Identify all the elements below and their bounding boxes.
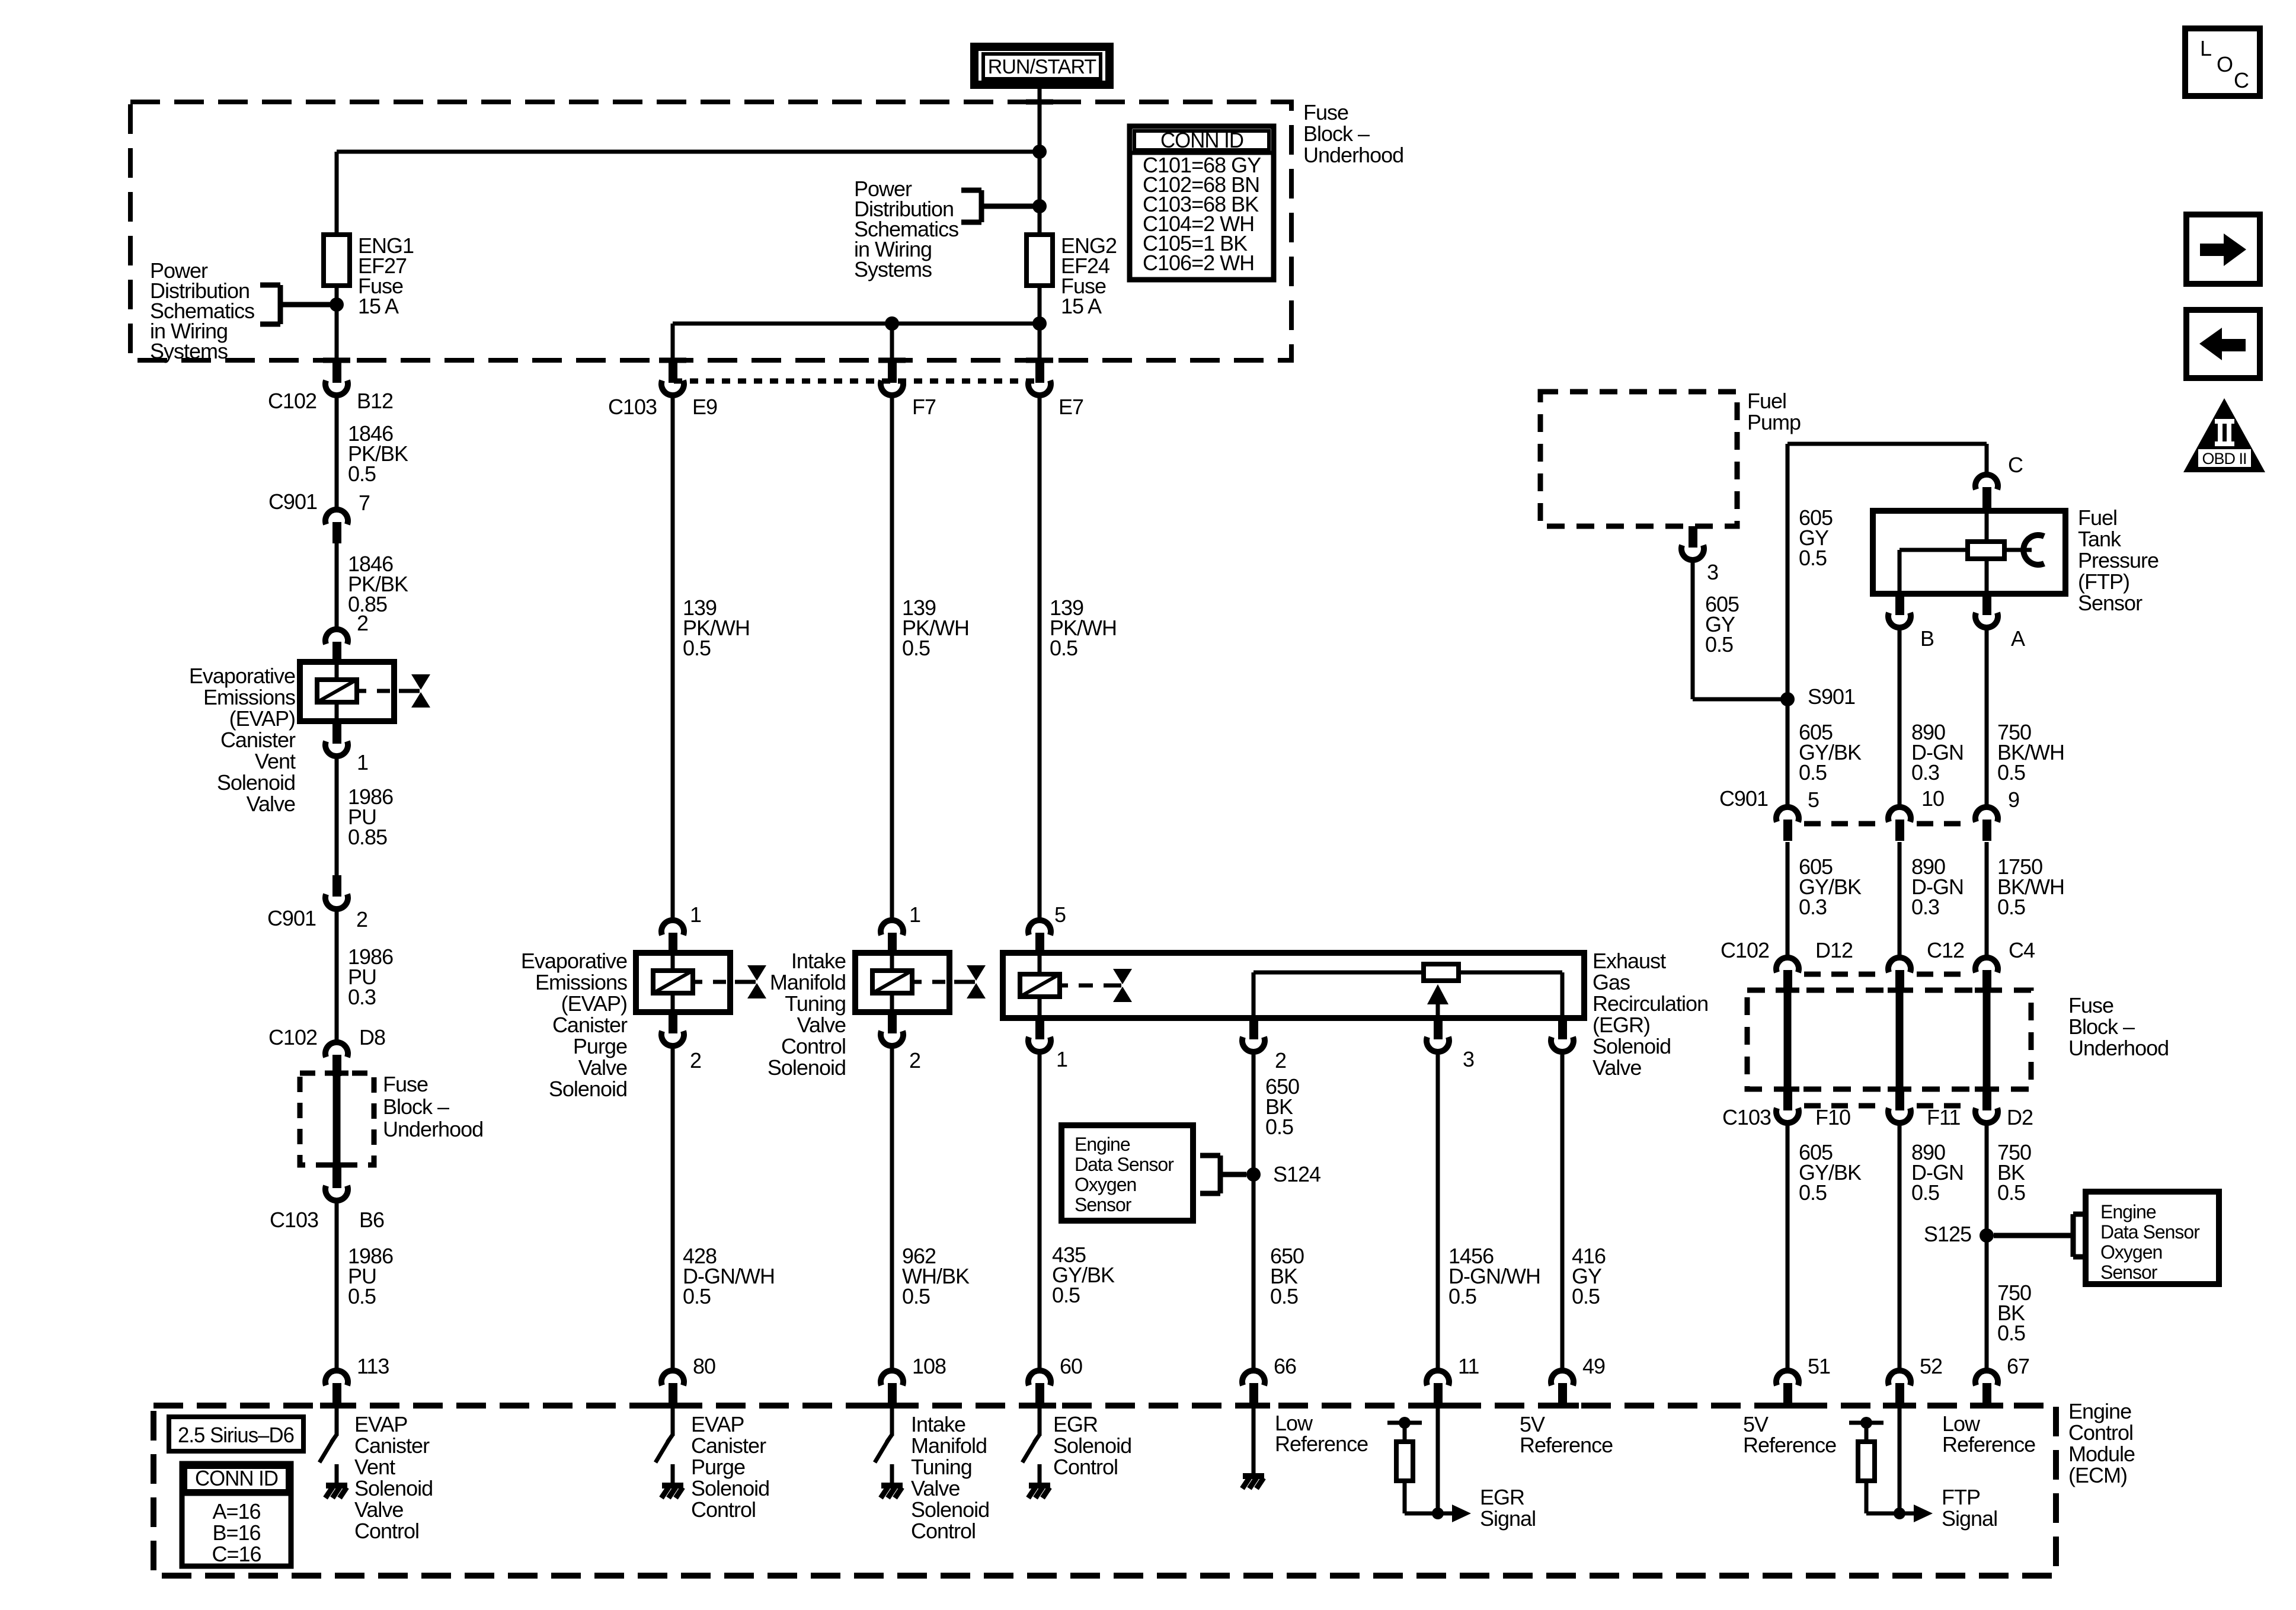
svg-text:Purge: Purge bbox=[573, 1034, 627, 1058]
svg-text:D2: D2 bbox=[2007, 1105, 2033, 1129]
wire EGR-3 to ECM 11 bbox=[1436, 1055, 1440, 1371]
svg-text:L: L bbox=[2200, 36, 2211, 60]
svg-text:5: 5 bbox=[1054, 902, 1066, 927]
svg-text:49: 49 bbox=[1582, 1354, 1605, 1378]
label 1 (vent pin1) bbox=[357, 750, 368, 774]
svg-text:Engine: Engine bbox=[1075, 1134, 1130, 1155]
connector ECM pin 66 bbox=[1242, 1371, 1265, 1403]
svg-text:Solenoid: Solenoid bbox=[911, 1497, 989, 1522]
label C102 (D8) bbox=[268, 1025, 317, 1049]
svg-text:Valve: Valve bbox=[578, 1055, 627, 1080]
svg-text:Data Sensor: Data Sensor bbox=[2100, 1221, 2200, 1243]
wire purge-2 to ECM 80 bbox=[671, 1049, 675, 1371]
label evaporative emissions vent bbox=[189, 664, 296, 816]
label C103 (E9) bbox=[608, 395, 657, 419]
svg-text:Engine: Engine bbox=[2068, 1399, 2131, 1423]
label wire 1750 BK/WH 0.5 bbox=[1997, 854, 2064, 919]
svg-text:Sensor: Sensor bbox=[1075, 1194, 1132, 1215]
wire EGR-1 to ECM 60 bbox=[1038, 1055, 1042, 1371]
label ENG1 EF27 Fuse 15 A bbox=[358, 233, 414, 318]
svg-text:C103: C103 bbox=[270, 1208, 318, 1232]
connector C103 F10 bbox=[1776, 1089, 1799, 1123]
connector intake solenoid pin 1 bbox=[881, 920, 903, 954]
svg-text:0.5: 0.5 bbox=[902, 636, 930, 660]
svg-text:C=16: C=16 bbox=[212, 1542, 261, 1566]
svg-text:15 A: 15 A bbox=[1061, 294, 1102, 318]
wire F10 to ECM 51 bbox=[1786, 1125, 1790, 1371]
svg-text:Canister: Canister bbox=[552, 1013, 628, 1037]
label 5 (C901) bbox=[1808, 788, 1819, 812]
svg-text:Valve: Valve bbox=[797, 1013, 846, 1037]
connector C901 pin 9 bbox=[1975, 807, 1998, 841]
connector C102 B12 bbox=[325, 361, 348, 395]
svg-text:Solenoid: Solenoid bbox=[354, 1476, 433, 1500]
svg-text:Intake: Intake bbox=[911, 1412, 965, 1436]
label wire 750 BK 0.5 (lower) bbox=[1997, 1281, 2031, 1345]
connector C103 F7 bbox=[881, 361, 903, 395]
label wire 1846 PK/BK 0.85 bbox=[348, 552, 408, 616]
label wire 1456 D-GN/WH 0.5 bbox=[1448, 1244, 1540, 1308]
svg-text:2: 2 bbox=[357, 611, 368, 635]
svg-text:Fuse: Fuse bbox=[1303, 100, 1348, 124]
svg-text:15 A: 15 A bbox=[358, 294, 399, 318]
label C12 bbox=[1927, 938, 1964, 962]
label 3 (EGR) bbox=[1463, 1047, 1474, 1071]
label pin 49 bbox=[1582, 1354, 1605, 1378]
label wire 139 PK/WH 0.5 (EGR) bbox=[1050, 596, 1117, 660]
svg-text:F7: F7 bbox=[912, 395, 936, 419]
svg-text:C: C bbox=[2234, 68, 2249, 92]
label wire 435 GY/BK 0.5 bbox=[1052, 1243, 1115, 1307]
ticks wires crossing fuse box bottom bbox=[323, 358, 1053, 363]
svg-text:80: 80 bbox=[693, 1354, 715, 1378]
svg-text:E9: E9 bbox=[692, 395, 717, 419]
label F11 bbox=[1927, 1105, 1960, 1129]
svg-text:108: 108 bbox=[912, 1354, 946, 1378]
fuse ENG2 EF24 bbox=[1027, 235, 1053, 286]
arrow icon (right) bbox=[2186, 215, 2260, 284]
svg-text:Solenoid: Solenoid bbox=[549, 1077, 627, 1101]
svg-text:0.5: 0.5 bbox=[1911, 1180, 1939, 1205]
svg-text:Control: Control bbox=[1053, 1455, 1118, 1479]
label pin 113 bbox=[357, 1354, 389, 1378]
CONN ID table (top) bbox=[1130, 126, 1274, 280]
node S901 splice dot bbox=[1780, 692, 1795, 706]
svg-text:Evaporative: Evaporative bbox=[189, 664, 295, 688]
svg-text:Data Sensor: Data Sensor bbox=[1075, 1154, 1174, 1175]
svg-text:Reference: Reference bbox=[1743, 1433, 1836, 1457]
label wire 1846 PK/BK 0.5 bbox=[348, 421, 408, 486]
wire C901-5 to C102-D12 bbox=[1786, 842, 1790, 958]
svg-text:2: 2 bbox=[909, 1048, 920, 1073]
svg-text:113: 113 bbox=[357, 1354, 389, 1378]
label 1 (purge) bbox=[690, 902, 701, 927]
svg-text:CONN ID: CONN ID bbox=[1160, 128, 1243, 152]
wire RUN/START down to ENG2 fuse bbox=[1038, 89, 1042, 235]
label D2 bbox=[2007, 1105, 2033, 1129]
svg-text:0.5: 0.5 bbox=[1270, 1284, 1298, 1308]
connector EGR pin 4 (unlabeled) bbox=[1551, 1018, 1574, 1052]
label wire 962 WH/BK 0.5 bbox=[902, 1244, 970, 1308]
label C901 (2) bbox=[267, 906, 316, 930]
svg-text:Valve: Valve bbox=[247, 792, 295, 816]
svg-text:Control: Control bbox=[2068, 1420, 2133, 1445]
label 9 (C901) bbox=[2008, 788, 2019, 812]
label wire 428 D-GN/WH 0.5 bbox=[683, 1244, 775, 1308]
label 2 (vent pin2) bbox=[357, 611, 368, 635]
label S124 bbox=[1273, 1162, 1320, 1186]
label wire 1986 PU 0.5 bbox=[348, 1244, 393, 1308]
svg-text:5: 5 bbox=[1808, 788, 1819, 812]
svg-text:(EVAP): (EVAP) bbox=[229, 706, 295, 731]
label B6 bbox=[359, 1208, 384, 1232]
node dot power distribution tap (ENG2) bbox=[1032, 199, 1047, 213]
label 1 (EGR) bbox=[1056, 1047, 1067, 1071]
label 7 bbox=[359, 491, 370, 515]
svg-text:Vent: Vent bbox=[255, 749, 296, 773]
svg-text:C102: C102 bbox=[268, 389, 316, 413]
svg-text:C901: C901 bbox=[267, 906, 316, 930]
valve symbol (intake) bbox=[954, 965, 986, 998]
svg-text:60: 60 bbox=[1060, 1354, 1082, 1378]
dashed link C102 right row bbox=[1804, 972, 1970, 977]
connector FTP B bbox=[1888, 594, 1911, 628]
svg-text:0.5: 0.5 bbox=[1799, 760, 1827, 785]
svg-text:(ECM): (ECM) bbox=[2068, 1463, 2127, 1487]
intake manifold tuning valve solenoid box bbox=[855, 953, 949, 1012]
svg-text:Block –: Block – bbox=[2068, 1014, 2135, 1039]
svg-text:C901: C901 bbox=[268, 489, 317, 514]
connector C103 B6 bbox=[325, 1167, 348, 1201]
svg-text:Underhood: Underhood bbox=[1303, 143, 1403, 167]
callout bracket S124 bbox=[1200, 1156, 1246, 1193]
label 2 (intake) bbox=[909, 1048, 920, 1073]
ticks right fuse box crossings bbox=[1776, 990, 1998, 1089]
svg-text:Oxygen: Oxygen bbox=[2100, 1241, 2162, 1263]
dashed link C901 right row bbox=[1804, 821, 1970, 827]
connector C102 D8 bbox=[325, 1042, 348, 1076]
wire ENG2 fuse down to E7 bbox=[1038, 286, 1042, 361]
label 3 (fuel pump) bbox=[1707, 560, 1718, 584]
label engine control module bbox=[2068, 1399, 2135, 1487]
svg-text:Sensor: Sensor bbox=[2078, 591, 2142, 615]
label FTP signal bbox=[1942, 1485, 1997, 1531]
svg-text:0.3: 0.3 bbox=[1799, 895, 1827, 919]
svg-text:Tank: Tank bbox=[2078, 527, 2122, 551]
ECM switch to ground (60) bbox=[1022, 1406, 1050, 1498]
connector C901 pin 10 bbox=[1888, 807, 1911, 841]
svg-text:B6: B6 bbox=[359, 1208, 384, 1232]
label power distribution schematics (mid) bbox=[854, 177, 958, 281]
svg-text:EVAP: EVAP bbox=[691, 1412, 744, 1436]
fuse block underhood (top) dashed box bbox=[130, 102, 1291, 360]
valve symbol (purge) bbox=[735, 965, 766, 998]
svg-text:Block –: Block – bbox=[383, 1094, 449, 1119]
connector fuel pump pin 3 bbox=[1681, 526, 1704, 560]
svg-text:66: 66 bbox=[1274, 1354, 1296, 1378]
label 2 (purge) bbox=[690, 1048, 701, 1073]
wire B12 to C901-7 bbox=[335, 398, 339, 510]
ticks left fuse box crossings bbox=[325, 1073, 348, 1165]
EVAP canister vent solenoid valve box bbox=[300, 662, 394, 721]
node junction dot at RUN/START bus bbox=[1032, 145, 1047, 159]
svg-text:0.5: 0.5 bbox=[1448, 1284, 1476, 1308]
svg-text:Control: Control bbox=[781, 1034, 846, 1058]
wire F11 to ECM 52 bbox=[1898, 1125, 1902, 1371]
wire down to E9 bbox=[671, 324, 675, 361]
svg-text:0.3: 0.3 bbox=[1911, 760, 1939, 785]
label fuse block underhood (right) bbox=[2068, 993, 2169, 1060]
svg-text:0.5: 0.5 bbox=[1050, 636, 1077, 660]
label 2 (EGR) bbox=[1275, 1048, 1286, 1073]
valve symbol (EGR) bbox=[1113, 969, 1132, 1002]
wire EGR-2 to ECM 66 bbox=[1252, 1055, 1256, 1371]
svg-text:EVAP: EVAP bbox=[354, 1412, 407, 1436]
callout bracket power distribution (left) bbox=[260, 285, 337, 324]
node dot power distribution tap (ENG1) bbox=[330, 297, 344, 312]
svg-text:E7: E7 bbox=[1059, 395, 1083, 419]
wire FTP A to C901-9 bbox=[1985, 630, 1989, 807]
svg-text:Reference: Reference bbox=[1275, 1432, 1368, 1456]
EVAP canister purge valve solenoid box bbox=[636, 953, 730, 1012]
label wire 605 GY 0.5 (to FTP) bbox=[1799, 505, 1833, 570]
svg-text:67: 67 bbox=[2007, 1354, 2029, 1378]
label intake manifold tuning valve solenoid control bbox=[911, 1412, 989, 1543]
svg-text:A=16: A=16 bbox=[212, 1499, 260, 1523]
fuel tank pressure FTP sensor box bbox=[1873, 508, 2065, 594]
dashed link C103 connector row bbox=[674, 379, 1038, 384]
svg-text:Fuel: Fuel bbox=[2078, 505, 2117, 530]
svg-text:Vent: Vent bbox=[354, 1455, 395, 1479]
callout bracket S125 bbox=[1994, 1214, 2086, 1257]
wire FTP B to C901-10 bbox=[1898, 630, 1902, 807]
svg-text:C: C bbox=[2008, 453, 2023, 477]
svg-text:C901: C901 bbox=[1719, 786, 1768, 811]
wire fuel pump to S901 bbox=[1693, 563, 1787, 699]
engine data sensor box (S124) bbox=[1061, 1125, 1193, 1221]
svg-text:Exhaust: Exhaust bbox=[1593, 949, 1666, 973]
label wire 605 GY/BK 0.5 (S901) bbox=[1799, 720, 1862, 785]
svg-text:0.5: 0.5 bbox=[902, 1284, 930, 1308]
wire D2 to ECM 67 bbox=[1985, 1125, 1989, 1371]
node dot at E7 branch bbox=[1032, 316, 1047, 331]
svg-text:Emissions: Emissions bbox=[203, 685, 295, 709]
label wire 650 BK 0.5 (lower) bbox=[1270, 1244, 1304, 1308]
svg-text:Pressure: Pressure bbox=[2078, 548, 2159, 572]
label C901 (right) bbox=[1719, 786, 1768, 811]
svg-text:O: O bbox=[2217, 52, 2233, 76]
label fuse block underhood (left small) bbox=[383, 1072, 483, 1141]
svg-text:OBD II: OBD II bbox=[2202, 450, 2246, 468]
label C4 bbox=[2009, 938, 2035, 962]
connector ECM pin 51 bbox=[1776, 1371, 1799, 1403]
engine data sensor box (S125) bbox=[2086, 1192, 2219, 1284]
svg-text:Solenoid: Solenoid bbox=[1053, 1433, 1131, 1458]
label power distribution schematics (left) bbox=[150, 258, 254, 363]
wire intake-2 to ECM 108 bbox=[890, 1049, 894, 1371]
svg-text:Underhood: Underhood bbox=[383, 1117, 483, 1141]
connector EVAP vent solenoid pin 1 bbox=[325, 722, 348, 756]
label intake manifold tuning valve bbox=[768, 949, 846, 1080]
label A (FTP) bbox=[2011, 626, 2025, 651]
svg-text:0.5: 0.5 bbox=[1705, 632, 1733, 657]
connector EGR pin 3 bbox=[1427, 1018, 1449, 1052]
ECM ground (66) bbox=[1242, 1406, 1264, 1489]
connector ECM pin 67 bbox=[1975, 1371, 1998, 1403]
svg-text:0.5: 0.5 bbox=[1997, 1180, 2025, 1205]
tick where wire crosses dashed box top bbox=[1026, 100, 1053, 105]
svg-text:Valve: Valve bbox=[1593, 1055, 1641, 1080]
connector EGR pin 5 bbox=[1028, 920, 1051, 954]
svg-text:1: 1 bbox=[690, 902, 701, 927]
label E9 bbox=[692, 395, 717, 419]
connector ECM pin 113 bbox=[325, 1371, 348, 1403]
connector C103 E7 bbox=[1028, 361, 1051, 395]
svg-text:Engine: Engine bbox=[2100, 1201, 2156, 1222]
EGR solenoid valve box with coil bbox=[1003, 953, 1584, 1018]
svg-text:S901: S901 bbox=[1808, 684, 1855, 709]
ECM switch to ground (80) bbox=[655, 1406, 683, 1498]
svg-text:Evaporative: Evaporative bbox=[521, 949, 627, 973]
svg-text:3: 3 bbox=[1707, 560, 1718, 584]
connector C103 F11 bbox=[1888, 1089, 1911, 1123]
label D8 bbox=[359, 1025, 385, 1049]
connector ECM pin 80 bbox=[661, 1371, 684, 1403]
svg-text:Underhood: Underhood bbox=[2068, 1036, 2169, 1060]
label pin 80 bbox=[693, 1354, 715, 1378]
svg-text:Solenoid: Solenoid bbox=[691, 1476, 769, 1500]
svg-text:D8: D8 bbox=[359, 1025, 385, 1049]
label S125 bbox=[1924, 1222, 1971, 1246]
svg-text:EGR: EGR bbox=[1480, 1485, 1524, 1509]
label wire 1986 PU 0.85 bbox=[348, 785, 393, 849]
label fuel pump bbox=[1747, 389, 1801, 434]
fuel pump dashed box bbox=[1540, 392, 1737, 526]
label pin 51 bbox=[1808, 1354, 1830, 1378]
label wire 890 D-GN 0.3 (lower) bbox=[1911, 854, 1964, 919]
svg-text:Solenoid: Solenoid bbox=[1593, 1034, 1671, 1058]
svg-text:Fuse: Fuse bbox=[383, 1072, 428, 1096]
label low reference (67) bbox=[1942, 1411, 2035, 1457]
label exhaust gas recirculation bbox=[1593, 949, 1708, 1080]
connector purge solenoid pin 2 bbox=[661, 1012, 684, 1046]
dashed link C103 right row bbox=[1804, 1103, 1970, 1109]
thick wires through right fuse block bbox=[1787, 993, 1987, 1089]
connector ECM pin 11 bbox=[1427, 1371, 1449, 1403]
connector C102 C12 bbox=[1888, 958, 1911, 991]
label low reference (66) bbox=[1275, 1411, 1368, 1456]
svg-text:Canister: Canister bbox=[220, 728, 296, 752]
svg-text:Control: Control bbox=[911, 1519, 976, 1543]
svg-text:0.5: 0.5 bbox=[1265, 1115, 1293, 1139]
svg-text:Manifold: Manifold bbox=[770, 970, 846, 994]
label EGR signal bbox=[1480, 1485, 1536, 1531]
label C (FTP) bbox=[2008, 453, 2023, 477]
svg-text:0.5: 0.5 bbox=[1799, 546, 1827, 570]
wire vent-1 to C901-2 bbox=[335, 759, 339, 875]
svg-text:0.85: 0.85 bbox=[348, 825, 387, 849]
connector C901 pin 7 bbox=[325, 510, 348, 543]
svg-text:Oxygen: Oxygen bbox=[1075, 1174, 1136, 1195]
svg-text:S125: S125 bbox=[1924, 1222, 1971, 1246]
svg-text:C4: C4 bbox=[2009, 938, 2035, 962]
wire down-left to ENG1 fuse bbox=[335, 152, 339, 235]
svg-text:10: 10 bbox=[1921, 786, 1944, 811]
label C102 bbox=[268, 389, 316, 413]
label wire 890 D-GN 0.3 (upper) bbox=[1911, 720, 1964, 785]
label wire 605 GY 0.5 (pump) bbox=[1705, 592, 1739, 657]
svg-text:Sensor: Sensor bbox=[2100, 1262, 2158, 1283]
label ENG2 EF24 Fuse 15 A bbox=[1061, 233, 1117, 318]
svg-text:(EGR): (EGR) bbox=[1593, 1013, 1650, 1037]
svg-text:0.5: 0.5 bbox=[1997, 1321, 2025, 1345]
svg-text:RUN/START: RUN/START bbox=[988, 56, 1096, 78]
label wire 890 D-GN 0.5 bbox=[1911, 1140, 1964, 1205]
node S125 splice dot bbox=[1980, 1228, 1994, 1243]
svg-text:D12: D12 bbox=[1815, 938, 1853, 962]
label 5V reference (49) bbox=[1520, 1412, 1613, 1457]
label 5 (EGR) bbox=[1054, 902, 1066, 927]
label wire 650 BK 0.5 (upper) bbox=[1265, 1074, 1299, 1139]
label wire 750 BK 0.5 (upper) bbox=[1997, 1140, 2031, 1205]
svg-text:7: 7 bbox=[359, 491, 370, 515]
svg-text:2: 2 bbox=[1275, 1048, 1286, 1073]
wire C901-10 to C102-C12 bbox=[1898, 842, 1902, 958]
label 1 (intake) bbox=[909, 902, 920, 927]
label F7 bbox=[912, 395, 936, 419]
svg-text:(EVAP): (EVAP) bbox=[561, 991, 627, 1016]
svg-text:C102: C102 bbox=[268, 1025, 317, 1049]
label pin 52 bbox=[1920, 1354, 1942, 1378]
connector FTP A bbox=[1975, 594, 1998, 628]
EGR position sensor (pot with wiper arrow) bbox=[1253, 964, 1562, 1018]
svg-text:Tuning: Tuning bbox=[911, 1455, 972, 1479]
label S901 bbox=[1808, 684, 1855, 709]
svg-text:(FTP): (FTP) bbox=[2078, 569, 2129, 594]
svg-text:A: A bbox=[2011, 626, 2025, 651]
svg-text:0.5: 0.5 bbox=[348, 462, 376, 486]
connector C102 C4 bbox=[1975, 958, 1998, 991]
label wire 416 GY 0.5 bbox=[1572, 1244, 1606, 1308]
svg-text:0.5: 0.5 bbox=[683, 636, 711, 660]
connector C901 pin 2 bbox=[325, 875, 348, 909]
svg-text:EGR: EGR bbox=[1053, 1412, 1098, 1436]
label pin 67 bbox=[2007, 1354, 2029, 1378]
wire C901-7 down bbox=[335, 543, 339, 629]
svg-text:Control: Control bbox=[691, 1497, 756, 1522]
svg-text:Block –: Block – bbox=[1303, 121, 1370, 146]
label pin 66 bbox=[1274, 1354, 1296, 1378]
label 5V reference (51) bbox=[1743, 1412, 1836, 1457]
label wire 139 PK/WH 0.5 (purge) bbox=[683, 596, 750, 660]
label C103 (right) bbox=[1722, 1105, 1771, 1129]
svg-text:Signal: Signal bbox=[1480, 1506, 1536, 1531]
svg-text:Recirculation: Recirculation bbox=[1593, 991, 1708, 1016]
wire 605 feed with top run bbox=[1787, 444, 1987, 807]
connector C103 D2 bbox=[1975, 1089, 1998, 1123]
connector EVAP vent solenoid pin 2 bbox=[325, 629, 348, 663]
svg-text:Fuel: Fuel bbox=[1747, 389, 1786, 413]
svg-text:Systems: Systems bbox=[854, 257, 932, 281]
svg-text:3: 3 bbox=[1463, 1047, 1474, 1071]
2.5 Sirius-D6 tag box bbox=[169, 1417, 303, 1451]
svg-text:0.5: 0.5 bbox=[1052, 1283, 1080, 1307]
wire E7 to EGR solenoid bbox=[1038, 398, 1042, 920]
svg-text:B=16: B=16 bbox=[212, 1521, 260, 1545]
label wire 139 PK/WH 0.5 (intake) bbox=[902, 596, 969, 660]
svg-text:Gas: Gas bbox=[1593, 970, 1630, 994]
node dot at F7 branch bbox=[885, 316, 899, 331]
